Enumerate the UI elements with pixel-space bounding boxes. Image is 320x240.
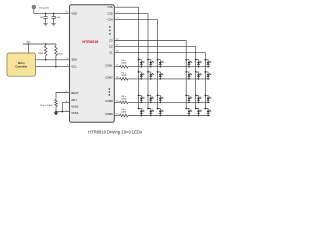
LED D7 (C16/COM2) <box>138 71 145 80</box>
resistor R1 <box>120 65 129 68</box>
wire column C1 <box>114 53 205 109</box>
LED D5 (C2/COM1) <box>195 59 202 68</box>
capacitor C2 <box>51 13 55 23</box>
LED D6 (C1/COM1) <box>204 59 211 68</box>
wire row COM8 (chip side) <box>114 101 119 103</box>
svg-text:C16: C16 <box>107 5 113 9</box>
svg-text:COM8: COM8 <box>105 99 113 103</box>
wire MCU VDD <box>27 44 29 53</box>
LED D16 (C3/COM8) <box>185 95 192 104</box>
junction C2/rail <box>53 13 55 15</box>
svg-text:HTR8916 Driving 16×9 LEDs: HTR8916 Driving 16×9 LEDs <box>88 129 142 134</box>
svg-text:VCC(+5V): VCC(+5V) <box>39 7 49 9</box>
svg-text:10kΩ: 10kΩ <box>38 53 43 55</box>
junction R1/SDA <box>45 59 47 61</box>
resistor R9 <box>120 114 129 117</box>
LED D22 (C3/COM9) <box>185 108 192 117</box>
ground (C1) <box>43 24 47 26</box>
svg-text:C14: C14 <box>107 18 113 22</box>
svg-text:SCL: SCL <box>71 65 77 69</box>
svg-text:1uF: 1uF <box>40 17 44 19</box>
LED D19 (C16/COM9) <box>138 108 145 117</box>
LED D24 (C1/COM9) <box>204 108 211 117</box>
LED D17 (C2/COM8) <box>195 95 202 104</box>
svg-text:C1: C1 <box>109 51 113 55</box>
wire column C2 <box>114 47 195 109</box>
LED D14 (C15/COM8) <box>147 95 154 104</box>
resistor R8 <box>120 101 129 104</box>
LED D8 (C15/COM2) <box>147 71 154 80</box>
svg-text:COM2: COM2 <box>105 76 113 80</box>
svg-text:VSS2: VSS2 <box>71 111 79 115</box>
LED D4 (C3/COM1) <box>185 59 192 68</box>
svg-text:HTR8916: HTR8916 <box>82 40 98 44</box>
LED D18 (C1/COM8) <box>204 95 211 104</box>
wire row COM1 (chip side) <box>114 66 119 68</box>
IC U1 LED driver <box>70 5 115 123</box>
LED D13 (C16/COM8) <box>138 95 145 104</box>
wire column C3 <box>114 41 186 109</box>
power rail VDD (pull-ups) <box>23 43 56 45</box>
svg-text:Controller: Controller <box>15 65 27 68</box>
wire row COM2 (matrix side) <box>128 78 210 80</box>
wire column C15 <box>114 13 148 108</box>
svg-text:COM9: COM9 <box>105 112 113 116</box>
LED D20 (C15/COM9) <box>147 108 154 117</box>
wire ADJ pin <box>62 103 69 112</box>
svg-text:SDA: SDA <box>71 58 77 62</box>
LED D11 (C2/COM2) <box>195 71 202 80</box>
svg-text:220Ω: 220Ω <box>121 63 126 65</box>
LED D2 (C15/COM1) <box>147 59 154 68</box>
svg-text:C2: C2 <box>109 45 113 49</box>
svg-text:Micro: Micro <box>18 62 25 65</box>
svg-text:220Ω: 220Ω <box>121 98 126 100</box>
svg-text:220Ω: 220Ω <box>121 75 126 77</box>
svg-text:VDD: VDD <box>71 11 77 15</box>
LED D15 (C14/COM8) <box>157 95 164 104</box>
wire VSS pin <box>56 111 70 113</box>
resistor R3 Rext <box>55 100 58 112</box>
LED D3 (C14/COM1) <box>157 59 164 68</box>
ground (C2) <box>51 24 55 26</box>
junction R2/SCL <box>55 66 57 68</box>
wire row COM2 (chip side) <box>114 78 119 80</box>
LED D12 (C1/COM2) <box>204 71 211 80</box>
junction ADJ/VSS <box>62 111 64 113</box>
svg-text:0.1uF: 0.1uF <box>55 17 61 19</box>
wire SDA <box>36 59 70 61</box>
ground (Rext) <box>54 112 59 116</box>
resistor R2 <box>55 44 58 67</box>
capacitor C1 <box>43 13 47 23</box>
junction R1/rail <box>45 43 47 45</box>
wire row COM1 (matrix side) <box>128 66 210 68</box>
resistor R1 <box>44 44 47 60</box>
svg-text:C3: C3 <box>109 38 113 42</box>
svg-text:VDD: VDD <box>26 42 31 44</box>
LED D23 (C2/COM9) <box>195 108 202 117</box>
svg-text:VSS1: VSS1 <box>71 104 79 108</box>
LED D21 (C14/COM9) <box>157 108 164 117</box>
svg-text:COM1: COM1 <box>105 63 113 67</box>
junction C1/rail <box>45 13 47 15</box>
wire VCC rail to VDD pin <box>34 12 70 14</box>
wire column C16 <box>114 7 138 108</box>
svg-text:220Ω: 220Ω <box>121 112 126 114</box>
wire row COM9 (matrix side) <box>128 115 210 117</box>
wire row COM8 (matrix side) <box>128 101 210 103</box>
ellipsis omitted column pins <box>109 26 110 34</box>
LED D9 (C14/COM2) <box>157 71 164 80</box>
wire SCL <box>36 66 70 68</box>
svg-text:REXT: REXT <box>71 91 79 95</box>
junction Rext/VSS <box>55 111 57 113</box>
power symbol VCC <box>32 5 35 13</box>
LED D1 (C16/COM1) <box>138 59 145 68</box>
svg-text:C15: C15 <box>107 11 113 15</box>
wire row COM9 (chip side) <box>114 115 119 117</box>
svg-text:10kΩ: 10kΩ <box>57 54 62 56</box>
microcontroller U2 <box>7 53 36 76</box>
wire column C14 <box>114 20 157 109</box>
wire REXT pin <box>56 93 70 100</box>
svg-text:ADJ: ADJ <box>71 98 77 102</box>
LED D10 (C3/COM2) <box>185 71 192 80</box>
resistor R2 <box>120 78 129 81</box>
junction VDD/MCU <box>28 43 30 45</box>
ellipsis omitted row pins <box>109 88 110 95</box>
